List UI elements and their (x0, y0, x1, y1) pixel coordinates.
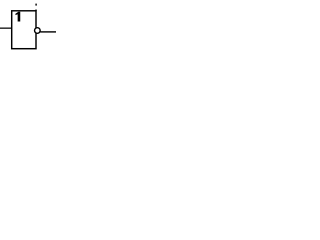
wire output (40, 31, 56, 33)
inverter gate U1 (IEC NOT gate) (0, 0, 56, 70)
wire stub (clipped, above gate) (35, 4, 36, 6)
wire input (0, 27, 12, 29)
gate body U1 (12, 11, 36, 49)
inversion bubble (35, 28, 41, 34)
label 1 (15, 12, 20, 22)
right edge overshoot (35, 10, 36, 12)
